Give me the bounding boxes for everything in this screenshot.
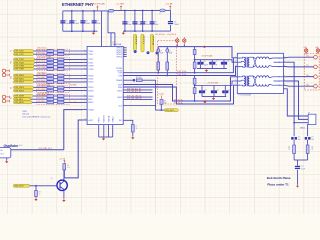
svg-text:P3: P3 xyxy=(239,66,241,68)
wire RXP channel B xyxy=(123,77,237,101)
svg-text:C?: C? xyxy=(204,61,206,63)
svg-text:ETH_RXD2: ETH_RXD2 xyxy=(15,82,24,84)
svg-text:C?: C? xyxy=(128,22,130,24)
wire ETH_TXD2 to chip xyxy=(64,58,83,60)
wire ETH_RXER to resistor xyxy=(33,95,47,97)
svg-text:uF: uF xyxy=(216,64,218,66)
svg-text:100nF: 100nF xyxy=(174,24,179,26)
junction RA2 xyxy=(194,72,196,74)
red marker on rail xyxy=(203,46,205,48)
svg-text:L?: L? xyxy=(169,51,171,53)
net label ETH_TXD2 xyxy=(14,58,35,61)
svg-text:470R: 470R xyxy=(48,53,51,55)
svg-text:Take smaller RESETS if used in: Take smaller RESETS if used in case xyxy=(22,115,50,118)
chip pin nRST stub xyxy=(83,119,87,121)
svg-text:CT: CT xyxy=(239,81,241,83)
capacitor CB1 xyxy=(201,86,203,92)
svg-text:470R: 470R xyxy=(48,74,51,76)
wire oscillator up to chip XTAL1 xyxy=(64,110,83,150)
wire bob smith bus xyxy=(294,159,308,161)
svg-text:R? 12k1: R? 12k1 xyxy=(136,77,142,79)
svg-text:470R: 470R xyxy=(48,89,51,91)
svg-text:C?: C? xyxy=(217,90,219,92)
transformer core xyxy=(245,76,247,87)
svg-text:P6: P6 xyxy=(279,77,281,79)
net label ETH_RXDV xyxy=(14,89,34,92)
svg-text:EN: EN xyxy=(1,150,3,152)
svg-text:RBIAS: RBIAS xyxy=(116,79,122,82)
svg-text:ETH_TXD2: ETH_TXD2 xyxy=(15,59,24,61)
resistor series R12a xyxy=(47,95,54,98)
svg-text:ETH_MDC: ETH_MDC xyxy=(38,98,46,100)
wire between resistors R2 xyxy=(54,53,58,55)
transformer center tap right xyxy=(274,61,284,63)
svg-text:C?: C? xyxy=(229,90,231,92)
net label vertical +V3A xyxy=(133,34,136,50)
svg-text:ETH_LED_LINK_B1: ETH_LED_LINK_B1 xyxy=(127,96,142,98)
svg-text:RXD1: RXD1 xyxy=(88,79,93,81)
ground oscillator xyxy=(6,160,8,161)
svg-text:RXN: RXN xyxy=(118,87,123,89)
resistor R bob2 75R xyxy=(306,145,309,154)
svg-text:ETH_LED_LINK_B2: ETH_LED_LINK_B2 xyxy=(127,98,142,100)
svg-text:TXEN: TXEN xyxy=(88,66,94,68)
svg-text:PlaceRES: PlaceRES xyxy=(70,102,77,104)
svg-text:470R: 470R xyxy=(48,77,51,79)
svg-text:ETH_TXD2:3/TXEN: ETH_TXD2:3/TXEN xyxy=(38,56,51,58)
capacitor C bob3 10nF xyxy=(295,166,300,167)
resistor R base 1k xyxy=(35,191,38,197)
capacitor C9 100nF xyxy=(168,21,173,22)
resistor series R6a xyxy=(47,68,54,71)
svg-text:100nF: 100nF xyxy=(75,23,80,25)
wire RXN channel B xyxy=(123,85,237,104)
resistor series R2a xyxy=(47,53,54,56)
svg-text:ETH_TXD1: ETH_TXD1 xyxy=(38,53,46,55)
transistor Q1 body xyxy=(57,180,67,190)
wire bank2 bottom rail xyxy=(123,30,170,32)
connector pin 3 xyxy=(314,75,318,79)
wire ETH_RXD1 to chip xyxy=(64,78,83,80)
svg-text:R?: R? xyxy=(164,101,166,103)
resistor R LED 330R xyxy=(160,99,163,104)
svg-text:1k: 1k xyxy=(136,128,138,130)
svg-text:CT: CT xyxy=(239,62,241,64)
net label ETH_TXER xyxy=(14,68,35,71)
svg-text:+V_LED: +V_LED xyxy=(158,94,165,96)
resistor series R7b xyxy=(58,74,64,77)
wire between resistors R8 xyxy=(54,78,58,80)
svg-text:R?: R? xyxy=(67,165,69,167)
junction RA xyxy=(194,59,196,61)
svg-text:P6: P6 xyxy=(279,58,281,60)
wire RBIAS node down to label xyxy=(156,80,165,110)
svg-text:10uF: 10uF xyxy=(155,24,159,26)
svg-text:+V_TR: +V_TR xyxy=(59,158,66,160)
svg-text:ETH_TXD1: ETH_TXD1 xyxy=(15,54,24,56)
wire between resistors R3 xyxy=(54,58,58,60)
svg-text:R?: R? xyxy=(312,147,314,149)
svg-text:TXN: TXN xyxy=(118,75,122,77)
svg-text:C?: C? xyxy=(75,21,77,23)
resistor series R2b xyxy=(58,53,64,56)
wire ETH_TXER to chip xyxy=(64,68,83,70)
svg-text:+V3_ETH_B: +V3_ETH_B xyxy=(142,36,144,44)
wire LED strap net 2 xyxy=(123,91,152,93)
svg-text:ETH_RXD3: ETH_RXD3 xyxy=(15,87,24,89)
red connector pin RX- xyxy=(2,99,5,102)
transformer center tap right xyxy=(274,80,284,82)
net label ETH_RXD2 xyxy=(14,80,34,83)
junction A2 xyxy=(166,75,168,77)
svg-text:330: 330 xyxy=(164,103,167,105)
wire transistor emitter xyxy=(63,190,65,199)
red dashed group box 3 xyxy=(37,74,70,84)
capacitor C3 100nF xyxy=(82,11,84,31)
svg-text:ETH_TXEN: ETH_TXEN xyxy=(15,66,25,68)
wire between resistors R12 xyxy=(54,95,58,97)
wire supply to chip VDD1 xyxy=(101,11,103,47)
red connector pin TX+ xyxy=(2,69,5,72)
wire LED strap net 4 xyxy=(123,99,152,101)
svg-text:TXD2: TXD2 xyxy=(88,59,93,61)
svg-text:SHIELD: SHIELD xyxy=(300,127,305,129)
wire between resistors R4 xyxy=(54,62,58,64)
svg-text:470R: 470R xyxy=(48,98,51,100)
wire ETH_RXD3 to chip xyxy=(64,86,83,88)
svg-text:R?: R? xyxy=(136,126,138,128)
resistor series R8b xyxy=(58,77,64,80)
ferrite bead chain A1 xyxy=(157,47,159,49)
wire ETH_RXDV to resistor xyxy=(33,90,47,92)
wire bob smith chain 2 xyxy=(307,125,310,137)
wire ETH_TXD1 to resistor xyxy=(34,53,47,55)
svg-text:+V_TRM: +V_TRM xyxy=(116,3,124,5)
svg-text:1nF: 1nF xyxy=(312,139,315,141)
svg-text:75: 75 xyxy=(288,149,290,151)
wire ETH_RXER to chip xyxy=(64,95,83,97)
junction base divider xyxy=(35,185,37,187)
svg-text:10uF: 10uF xyxy=(97,23,101,25)
svg-text:C?: C? xyxy=(174,21,176,23)
svg-text:Q?: Q? xyxy=(51,178,53,180)
red dashed group box 5 xyxy=(37,95,70,105)
net label XTAL_BOOT xyxy=(13,184,29,187)
wire ETH_RXD1 to resistor xyxy=(34,78,47,80)
power flag jack 2 xyxy=(316,49,319,52)
svg-text:X?: X? xyxy=(308,113,310,115)
svg-text:100nF: 100nF xyxy=(86,23,91,25)
resistor series R10b xyxy=(58,86,64,89)
junction dots bank2 xyxy=(124,10,126,12)
wire ETH_RXD3 to resistor xyxy=(34,86,47,88)
svg-text:C?: C? xyxy=(205,90,207,92)
connector pin 6 xyxy=(314,84,318,88)
wire to base resistor xyxy=(35,186,37,191)
junction RB xyxy=(194,85,196,87)
svg-text:75: 75 xyxy=(312,149,314,151)
net label ETH_MDIO xyxy=(14,101,33,104)
svg-text:TXD3: TXD3 xyxy=(88,62,93,64)
svg-text:ETH_MDIO: ETH_MDIO xyxy=(38,101,47,103)
svg-text:ETH_MDC: ETH_MDC xyxy=(15,99,24,101)
svg-text:RX: RX xyxy=(11,87,13,89)
power flag jack 1 xyxy=(305,49,308,52)
capacitor C2 100nF xyxy=(71,11,73,31)
resistor series R4a xyxy=(47,61,54,64)
chip bottom pin stubs to ground xyxy=(98,125,100,137)
ground base resistor xyxy=(35,198,37,199)
wire between resistors R14 xyxy=(54,101,58,103)
svg-text:ETH_TXER: ETH_TXER xyxy=(15,69,25,71)
wire between resistors R5 xyxy=(54,65,58,67)
svg-text:+V3_ETH_A: +V3_ETH_A xyxy=(155,33,165,36)
svg-text:P8: P8 xyxy=(279,85,281,87)
wire ETH_RXD0 to resistor xyxy=(34,75,47,77)
chip left pin stubs xyxy=(83,50,87,52)
svg-text:C?: C? xyxy=(216,61,218,63)
red dashed group box 1 xyxy=(37,49,70,56)
svg-text:C?: C? xyxy=(227,61,229,63)
transformer crossover xyxy=(253,76,256,84)
net label ETH_TXEN xyxy=(14,64,35,67)
wire chip INT pin to pulldown xyxy=(123,120,133,124)
capacitor CA3 xyxy=(223,60,225,64)
wire ETH_TXD3 to chip xyxy=(64,62,83,64)
svg-text:ETH_RXER: ETH_RXER xyxy=(15,96,25,98)
wire cap bottom bus B xyxy=(202,96,226,98)
svg-text:ETH_RX_B-: ETH_RX_B- xyxy=(174,103,183,105)
ferrite bead chain A2 xyxy=(166,47,168,49)
svg-text:+V3_ETH_A/B: +V3_ETH_A/B xyxy=(201,54,213,57)
wire between resistors R13 xyxy=(54,98,58,100)
resistor RA bottom 49R9 xyxy=(193,62,196,69)
ground channel B caps xyxy=(213,97,215,98)
resistor series R5b xyxy=(58,65,64,68)
svg-text:15: 15 xyxy=(84,119,86,121)
wire TXP channel A xyxy=(123,58,233,73)
wire supply to chip VDD2 xyxy=(108,11,115,33)
svg-text:ETH_RXD1: ETH_RXD1 xyxy=(15,78,24,80)
capacitor CB3 xyxy=(224,86,226,92)
svg-text:100n: 100n xyxy=(145,24,149,26)
resistor RB bottom 49R9 xyxy=(193,88,196,94)
resistor series R9b xyxy=(58,81,64,84)
svg-text:LED1: LED1 xyxy=(117,90,122,92)
chip right short stubs xyxy=(123,47,127,49)
wire ETH_TXEN to resistor xyxy=(34,65,47,67)
red marker channel B xyxy=(204,100,207,103)
wire T1 out- to jack xyxy=(284,65,314,68)
transformer output wires xyxy=(269,77,284,78)
transformer core xyxy=(245,57,247,68)
svg-text:RD+: RD+ xyxy=(307,75,310,77)
resistor series R5a xyxy=(47,65,54,68)
wire RBIAS to LED node xyxy=(142,79,156,81)
red dashed keepout termination xyxy=(158,41,177,105)
transformer winding secondary xyxy=(248,76,249,86)
svg-text:nRST: nRST xyxy=(88,120,94,122)
wire bob smith chain 1 xyxy=(293,123,295,137)
svg-text:RXD: RXD xyxy=(11,76,13,79)
svg-text:C?: C? xyxy=(302,166,304,168)
svg-text:ETH_TXD0: ETH_TXD0 xyxy=(38,50,46,52)
ground transistor emitter xyxy=(63,199,65,200)
svg-text:XTAL2: XTAL2 xyxy=(112,116,115,123)
oscillator X1 body xyxy=(0,148,11,158)
transformer winding secondary xyxy=(248,57,249,67)
svg-text:ETH_MDC/MDIO: ETH_MDC/MDIO xyxy=(38,93,50,95)
resistor series R14b xyxy=(58,101,64,104)
svg-text:470R: 470R xyxy=(48,61,51,63)
net label vertical +V3C xyxy=(150,34,153,52)
capacitor C5 100nF xyxy=(124,11,126,32)
svg-text:ETH_TXD0:1: ETH_TXD0:1 xyxy=(38,48,47,50)
svg-text:ETH_TXD0: ETH_TXD0 xyxy=(15,51,24,53)
resistor RB top 49R9 xyxy=(193,78,196,84)
wire between resistors R11 xyxy=(54,90,58,92)
wire LED strap net 3 xyxy=(123,96,152,98)
resistor series R13b xyxy=(58,98,64,101)
svg-text:R?: R? xyxy=(288,147,290,149)
wire T2 center tap down xyxy=(284,81,309,119)
svg-text:10k: 10k xyxy=(67,167,70,169)
svg-text:RXER: RXER xyxy=(88,96,94,98)
red connector pin RX+ xyxy=(2,95,5,98)
resistor series R10a xyxy=(47,86,54,89)
wire ETH_TXD1 to chip xyxy=(64,53,83,55)
svg-text:VDD1A: VDD1A xyxy=(107,115,110,122)
wire cap rail A xyxy=(195,60,238,63)
wire ETH_TXD0 to resistor xyxy=(34,50,47,52)
wire ETH_MDC to chip xyxy=(64,98,83,100)
junction dots bank1 xyxy=(71,10,73,12)
net label ETH_MDC xyxy=(14,98,31,101)
svg-text:+VJ2: +VJ2 xyxy=(315,47,318,49)
svg-text:P3: P3 xyxy=(239,85,241,87)
svg-text:TXD1: TXD1 xyxy=(88,54,93,56)
junction dot A xyxy=(134,50,137,53)
chip pin XTAL1 stub xyxy=(83,109,87,111)
svg-text:ETH_RX_B+: ETH_RX_B+ xyxy=(174,99,183,101)
wire ETH_TXD3 to resistor xyxy=(35,62,47,64)
junction dot B xyxy=(147,51,150,54)
wire +V3 rail to transformer xyxy=(158,47,237,58)
svg-text:GPIO4: GPIO4 xyxy=(116,56,122,58)
ground R pulldown xyxy=(132,136,134,137)
svg-text:P1: P1 xyxy=(239,77,241,79)
resistor series R1b xyxy=(58,50,64,53)
svg-text:OUT: OUT xyxy=(1,153,4,155)
ground bank1 xyxy=(93,31,95,32)
svg-text:ETH_TXD3: ETH_TXD3 xyxy=(15,62,24,64)
resistor R bias 12k1 xyxy=(136,79,142,82)
wire supply to chip VDD3 xyxy=(114,33,116,47)
red dashed group box 2 xyxy=(37,58,70,71)
resistor series R4b xyxy=(58,61,64,64)
transformer cmc winding bottom xyxy=(249,65,256,67)
red connector pin TX- xyxy=(2,73,5,76)
transformer winding primary xyxy=(237,75,244,78)
junction dot C xyxy=(156,52,159,55)
svg-text:CT: CT xyxy=(279,81,281,83)
wire ETH_RXD2 to chip xyxy=(64,81,83,83)
svg-text:100n: 100n xyxy=(128,24,132,26)
svg-text:VSS1: VSS1 xyxy=(99,116,101,122)
ground channel A caps xyxy=(206,69,208,70)
junction LED xyxy=(160,109,162,111)
svg-text:ETH_RXD0:2: ETH_RXD0:2 xyxy=(38,73,47,75)
resistor termination 49R9 A1 xyxy=(157,62,160,70)
wire ETH_TXD0 to chip xyxy=(64,50,83,52)
svg-text:ETHERNET PHY: ETHERNET PHY xyxy=(62,2,94,7)
svg-text:470R: 470R xyxy=(48,101,51,103)
svg-text:1nF: 1nF xyxy=(298,139,301,141)
resistor series R1a xyxy=(47,50,54,53)
wire transistor collector xyxy=(63,170,65,181)
svg-text:+V3_ETH_A/B: +V3_ETH_A/B xyxy=(92,3,105,6)
wire oscillator output xyxy=(11,149,64,151)
wire ETH_RXD2 to resistor xyxy=(34,81,47,83)
wire cap bottom bus A xyxy=(197,68,227,70)
svg-text:C?: C? xyxy=(145,22,147,24)
svg-text:ETH_RXDV: ETH_RXDV xyxy=(38,89,46,91)
svg-text:ETH_RXD1: ETH_RXD1 xyxy=(38,77,46,79)
svg-text:T? TG110-S050N2: T? TG110-S050N2 xyxy=(238,94,251,96)
resistor R bob1 75R xyxy=(293,145,296,154)
resistor series R3a xyxy=(47,58,54,61)
resistor series R9a xyxy=(47,81,54,84)
svg-text:C?: C? xyxy=(155,22,157,24)
net label ETH_TXD1 xyxy=(14,53,34,56)
wire oscillator ground stub xyxy=(6,158,8,160)
connector pin 1 xyxy=(314,55,318,59)
svg-text:ETH_XTAL_IN_R: ETH_XTAL_IN_R xyxy=(39,147,53,150)
wire between resistors R6 xyxy=(54,68,58,70)
svg-text:1k: 1k xyxy=(39,194,41,196)
capacitor CA2 xyxy=(211,60,213,64)
op-amp U1 PHY chip LAN8720A body xyxy=(87,46,123,124)
svg-text:ETH_TXD3: ETH_TXD3 xyxy=(38,61,46,63)
resistor series R8a xyxy=(47,77,54,80)
wire collector node to chip nRST xyxy=(64,120,83,178)
resistor R pulldown 1k xyxy=(131,125,134,133)
svg-text:TXER: TXER xyxy=(88,69,94,71)
capacitor C4 10uF xyxy=(93,11,95,31)
wire top supply rail segment 3 xyxy=(165,9,170,11)
svg-text:+V3_ETH_A/B: +V3_ETH_A/B xyxy=(207,81,219,84)
connector J shield box xyxy=(308,114,316,124)
svg-text:ETH_LED1: ETH_LED1 xyxy=(165,110,174,112)
svg-text:ETH_RXD2: ETH_RXD2 xyxy=(38,80,46,82)
svg-text:10nF: 10nF xyxy=(302,168,305,170)
resistor series R11b xyxy=(58,89,64,92)
ground chip epad xyxy=(103,137,105,138)
svg-text:RXD0: RXD0 xyxy=(88,75,93,77)
power circle P2 xyxy=(183,39,186,42)
svg-text:R?: R? xyxy=(39,192,41,194)
svg-text:470R: 470R xyxy=(48,64,51,66)
wire T2 out+ to jack xyxy=(284,76,314,78)
svg-text:PlaceRES: PlaceRES xyxy=(70,84,77,86)
svg-text:ETH_TXEN: ETH_TXEN xyxy=(38,64,46,66)
svg-text:LED2: LED2 xyxy=(117,97,122,99)
wire ETH_TXER to resistor xyxy=(34,68,47,70)
power circle P1 xyxy=(176,39,179,42)
svg-text:VDDCR: VDDCR xyxy=(104,115,106,123)
svg-text:C?: C? xyxy=(138,22,140,24)
svg-text:TD+: TD+ xyxy=(307,55,310,57)
